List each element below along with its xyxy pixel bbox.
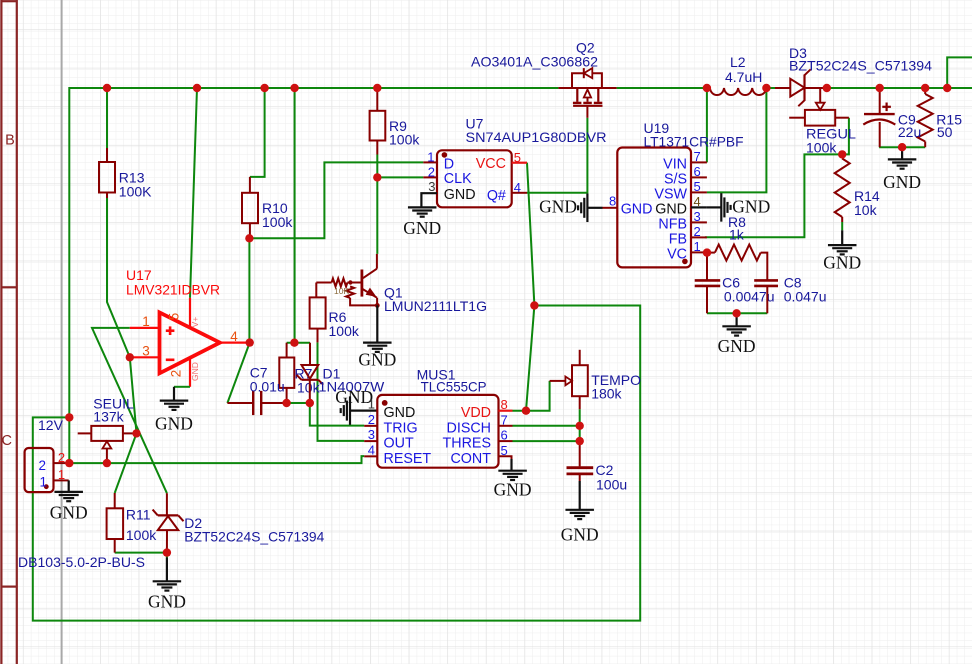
- U7 VCC pin lead: [512, 162, 527, 164]
- svg-text:1: 1: [39, 475, 47, 490]
- svg-text:2: 2: [368, 412, 375, 427]
- svg-text:GND: GND: [621, 201, 653, 217]
- ground U19 pin8 sideways: [587, 207, 602, 209]
- svg-text:R11: R11: [126, 507, 151, 523]
- IC U19 LT1371CR#PBF: [617, 148, 691, 268]
- svg-text:8: 8: [609, 194, 616, 209]
- sheet boundary line: [61, 0, 63, 664]
- svg-text:THRES: THRES: [443, 436, 491, 452]
- junction dots R7/D1: [290, 339, 298, 347]
- diode D1 zener: [309, 343, 311, 365]
- wire R10 bottom to op-amp output: [248, 238, 250, 342]
- svg-text:1: 1: [142, 314, 150, 329]
- junction dots power right: [898, 143, 906, 151]
- wire VDD to TEMPO wiper: [513, 381, 550, 411]
- U7 Q# pin lead: [512, 192, 527, 194]
- wire U7 VCC slant down: [527, 163, 534, 306]
- ground D2/R11: [166, 558, 168, 582]
- svg-text:4: 4: [694, 194, 701, 209]
- svg-text:GND: GND: [384, 405, 416, 421]
- svg-text:GND: GND: [148, 592, 186, 612]
- capacitor C8: [754, 279, 778, 282]
- svg-text:CLK: CLK: [444, 171, 472, 187]
- svg-text:2: 2: [38, 458, 46, 473]
- svg-text:7: 7: [694, 149, 701, 164]
- wire top rail right: [827, 87, 972, 89]
- capacitor C9 polarized: [879, 88, 881, 113]
- resistor R8 zigzag horizontal: [707, 252, 715, 254]
- ground C9/R15: [901, 147, 903, 159]
- svg-text:4.7uH: 4.7uH: [725, 69, 762, 85]
- svg-text:L2: L2: [730, 54, 746, 70]
- svg-text:S/S: S/S: [664, 171, 687, 187]
- ground op-amp: [160, 400, 189, 402]
- svg-text:GND: GND: [50, 502, 88, 522]
- svg-text:GND: GND: [155, 414, 193, 434]
- potentiometer TEMPO: [579, 350, 581, 365]
- svg-text:LMUN2111LT1G: LMUN2111LT1G: [384, 298, 487, 314]
- wire long 12V row to RESET: [69, 456, 364, 463]
- svg-text:100u: 100u: [596, 476, 627, 492]
- resistor R6: [310, 297, 326, 328]
- wire U7 Q# to Q2 gate: [527, 118, 587, 193]
- resistor R13: [106, 148, 108, 162]
- ground Q1 emitter: [376, 305, 378, 342]
- wire R11 bottom to D2 bottom: [115, 552, 167, 554]
- svg-text:GND: GND: [655, 201, 687, 217]
- wire R9 to CLK and Q1 collector: [376, 155, 378, 254]
- ground C6/C8: [735, 313, 737, 326]
- svg-text:OUT: OUT: [384, 436, 414, 452]
- wire op-amp pin5 drop: [190, 88, 197, 298]
- svg-text:GND: GND: [732, 196, 770, 216]
- svg-text:SN74AUP1G80DBVR: SN74AUP1G80DBVR: [466, 129, 607, 145]
- svg-text:12V: 12V: [38, 417, 64, 433]
- ground 555 pin1 sideways: [350, 410, 377, 412]
- svg-text:RESET: RESET: [384, 451, 432, 467]
- svg-text:GND: GND: [403, 218, 441, 238]
- resistor R14 zigzag: [841, 154, 843, 158]
- svg-text:DISCH: DISCH: [447, 420, 491, 436]
- wire top-right branch up: [947, 57, 972, 88]
- svg-text:5: 5: [166, 313, 181, 321]
- wire C9/R15 bottom: [879, 146, 925, 148]
- svg-text:BZT52C24S_C571394: BZT52C24S_C571394: [789, 58, 932, 74]
- ground R14: [841, 230, 843, 245]
- svg-text:10k: 10k: [854, 202, 878, 218]
- ground U7 pin3: [421, 193, 437, 207]
- svg-text:3: 3: [428, 179, 435, 194]
- svg-text:100k: 100k: [389, 131, 420, 147]
- resistor R9: [376, 88, 378, 111]
- capacitor C2: [579, 441, 581, 466]
- svg-text:LT1371CR#PBF: LT1371CR#PBF: [644, 134, 744, 150]
- svg-text:2: 2: [169, 370, 184, 378]
- svg-text:DB103-5.0-2P-BU-S: DB103-5.0-2P-BU-S: [18, 554, 145, 570]
- svg-text:100k: 100k: [126, 527, 157, 543]
- wire 555 THRES row: [513, 440, 580, 442]
- wire R10 bottom to U7 D pin: [249, 162, 423, 238]
- resistor R7: [286, 343, 288, 358]
- wire R7/D1 bottom to TRIG: [287, 402, 310, 404]
- potentiometer SEUIL: [78, 432, 92, 434]
- svg-text:2: 2: [428, 164, 435, 179]
- diode D3 zener: [775, 87, 790, 89]
- svg-text:5: 5: [694, 179, 701, 194]
- svg-text:22u: 22u: [898, 124, 921, 140]
- svg-text:100k: 100k: [262, 214, 293, 230]
- svg-text:GND: GND: [823, 252, 861, 272]
- svg-text:C: C: [2, 433, 12, 449]
- wire C6/C8 bottom: [707, 312, 767, 314]
- wire top rail left: [69, 88, 558, 463]
- svg-text:1k: 1k: [729, 227, 745, 243]
- transistor Q1 LMUN2111: [376, 254, 378, 269]
- svg-text:GND: GND: [539, 196, 577, 216]
- svg-text:1: 1: [58, 467, 65, 482]
- wire R7/D1 top from rail: [294, 88, 296, 343]
- svg-text:3: 3: [142, 343, 150, 358]
- svg-text:2: 2: [58, 450, 65, 465]
- wire R6 bottom to OUT: [318, 342, 365, 441]
- svg-text:100k: 100k: [329, 323, 360, 339]
- junction dot U7 CLK: [373, 173, 381, 181]
- svg-text:GND: GND: [494, 480, 532, 500]
- ground U19 pin4 sideways: [707, 206, 721, 208]
- ground C2: [579, 481, 581, 510]
- svg-text:LMV321IDBVR: LMV321IDBVR: [126, 282, 220, 298]
- 555 DISCH pin lead: [499, 425, 513, 427]
- svg-text:2: 2: [694, 224, 701, 239]
- svg-text:4: 4: [368, 442, 375, 457]
- transistor Q2 PMOS: [558, 87, 616, 89]
- ground connector pin1: [68, 480, 70, 492]
- svg-text:10k: 10k: [297, 380, 321, 396]
- svg-text:AO3401A_C306862: AO3401A_C306862: [471, 54, 598, 70]
- wire VCC slant to 555 VDD: [526, 306, 534, 411]
- resistor R11: [114, 493, 116, 508]
- svg-text:NFB: NFB: [658, 216, 687, 232]
- svg-text:1: 1: [368, 397, 375, 412]
- resistor R10: [249, 177, 251, 193]
- wire top rail mid: [617, 87, 710, 89]
- wire VCC loop right side and bottom: [33, 306, 640, 621]
- svg-text:VDD: VDD: [461, 405, 491, 421]
- resistor R15 zigzag: [924, 88, 926, 94]
- svg-text:GND: GND: [358, 349, 396, 369]
- svg-text:3: 3: [368, 427, 375, 442]
- svg-text:VC: VC: [667, 246, 687, 262]
- wire 555 DISCH row: [513, 425, 580, 427]
- wire output slant to C7: [227, 343, 249, 403]
- svg-text:3: 3: [694, 209, 701, 224]
- junction dots 555 right: [576, 422, 584, 430]
- wire op-amp pin1 to D2 slant: [92, 328, 167, 493]
- inductor L2: [710, 88, 766, 95]
- capacitor C6: [706, 253, 708, 280]
- svg-text:TLC555CP: TLC555CP: [421, 379, 487, 395]
- svg-text:137k: 137k: [93, 409, 124, 425]
- svg-text:0.047u: 0.047u: [784, 288, 827, 304]
- svg-text:4: 4: [230, 329, 238, 344]
- junction dots op-amp region: [126, 353, 134, 361]
- junction dots 12V net: [65, 413, 73, 421]
- svg-text:180k: 180k: [591, 386, 622, 402]
- svg-text:BZT52C24S_C571394: BZT52C24S_C571394: [184, 529, 324, 545]
- svg-text:100K: 100K: [119, 183, 152, 199]
- svg-text:GND: GND: [561, 524, 599, 544]
- 555 CONT pin lead to ground: [499, 456, 512, 471]
- IC U7 SN74AUP1G80DBVR: [437, 150, 512, 207]
- frame border: [0, 0, 2, 664]
- capacitor C7: [227, 402, 253, 404]
- svg-text:100k: 100k: [806, 140, 837, 156]
- svg-text:GND: GND: [190, 362, 200, 381]
- svg-text:10K: 10K: [334, 286, 349, 296]
- svg-text:CONT: CONT: [450, 451, 491, 467]
- svg-text:50: 50: [937, 124, 953, 140]
- svg-text:V+: V+: [190, 317, 200, 328]
- wire L2 right to U19 VSW: [707, 88, 767, 192]
- op-amp U17: [160, 312, 220, 373]
- svg-text:1: 1: [427, 149, 434, 164]
- junction dot D2 bottom: [163, 548, 171, 556]
- svg-text:VCC: VCC: [476, 156, 506, 172]
- svg-text:0.01u: 0.01u: [250, 379, 285, 395]
- connector P DB103: [25, 448, 54, 492]
- svg-text:Q#: Q#: [487, 188, 506, 204]
- svg-text:FB: FB: [669, 231, 687, 247]
- junction dots top rail: [103, 84, 111, 92]
- wire REGUL to R14/FB: [705, 118, 849, 238]
- 555 VDD pin lead: [499, 410, 513, 412]
- svg-text:TRIG: TRIG: [384, 420, 418, 436]
- svg-text:6: 6: [694, 164, 701, 179]
- potentiometer REGUL: [789, 117, 805, 119]
- svg-text:B: B: [5, 133, 15, 149]
- svg-text:1: 1: [694, 239, 701, 254]
- junction dots VCC loop: [530, 301, 538, 309]
- wire L2 left to U19 VIN: [706, 88, 708, 162]
- svg-text:GND: GND: [883, 172, 921, 192]
- svg-text:GND: GND: [718, 336, 756, 356]
- wire R13 chain to SEUIL/R11: [106, 88, 108, 148]
- wire op-amp pin2 to GND jog: [174, 386, 190, 388]
- wire R10 top jog: [250, 88, 265, 177]
- svg-text:GND: GND: [444, 187, 476, 203]
- 555 THRES pin lead: [499, 440, 513, 442]
- IC MUS1 TLC555CP: [377, 395, 498, 468]
- svg-text:VSW: VSW: [654, 186, 687, 202]
- svg-text:VIN: VIN: [663, 156, 687, 172]
- wire TEMPO bottom to DISCH/THRES: [579, 409, 581, 441]
- diode D2 zener: [166, 493, 168, 515]
